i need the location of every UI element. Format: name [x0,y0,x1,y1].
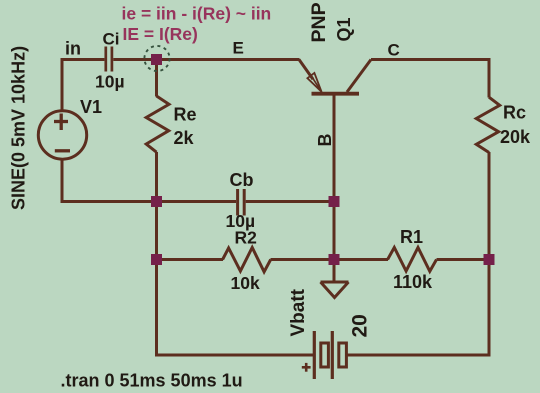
junction node base/Cb [329,196,340,207]
wire Ci right to node E junction [113,58,299,61]
wire left vertical V1 top [61,58,64,112]
resistor Rc [476,97,499,152]
svg-text:Q1: Q1 [334,17,354,41]
wire Cb right to base node [246,200,334,203]
wire in-node top-left horizontal to Ci [61,58,105,61]
junction node R2 row left [151,254,162,265]
svg-text:20: 20 [349,314,372,337]
svg-text:10µ: 10µ [95,72,125,92]
svg-text:Ci: Ci [103,30,120,49]
svg-text:IE = I(Re): IE = I(Re) [123,24,198,44]
junction node base/R2/ground [329,254,340,265]
svg-text:20k: 20k [500,127,531,147]
emitter arrow (PNP, points to base bar) [311,75,322,92]
wire right rail lower [488,152,491,357]
wire collector horizontal C [371,58,491,61]
svg-text:.tran 0 51ms 50ms 1u: .tran 0 51ms 50ms 1u [61,371,243,391]
wire R1 right to right rail [437,258,491,261]
battery plus mark [302,366,311,369]
voltage source V1 [38,111,86,159]
ground symbol [321,282,349,298]
resistor R2 [223,248,271,272]
wire V1 bottom vertical [61,159,64,204]
wire bottom node row to Cb left [61,200,237,203]
svg-text:SINE(0 5mV 10kHz): SINE(0 5mV 10kHz) [9,46,29,210]
wire right rail upper [488,58,491,98]
junction node in/E [151,54,162,65]
collector diagonal [347,60,371,93]
resistor Re [146,96,169,152]
svg-text:110k: 110k [393,272,433,292]
wire R2 right to base junction [271,258,335,261]
junction node R1/right rail [484,254,495,265]
transistor Q1 (PNP) [299,60,371,94]
resistor R1 [388,248,437,272]
wire R1 row left [334,258,388,261]
svg-text:V1: V1 [80,97,102,117]
junction node V1-/Cb row left [151,196,162,207]
wire Re bottom down left rail [155,152,158,357]
svg-text:PNP: PNP [308,2,330,42]
svg-text:ie = iin - i(Re) ~ iin: ie = iin - i(Re) ~ iin [122,4,272,24]
svg-text:C: C [388,41,400,60]
svg-text:in: in [65,39,81,59]
battery Vbatt [302,331,347,379]
svg-text:10k: 10k [231,273,260,293]
wire bottom rail right of battery [347,354,491,357]
wire E junction down to Re top [155,60,158,97]
base bar [312,92,360,96]
svg-text:Cb: Cb [230,170,254,190]
dashed marker circle at node E [144,46,169,71]
svg-text:R2: R2 [235,228,258,248]
capacitor Ci [106,47,112,72]
wire base vertical B [333,95,336,282]
svg-text:R1: R1 [400,227,423,247]
svg-text:Rc: Rc [503,103,526,123]
svg-text:B: B [315,134,335,147]
svg-text:E: E [233,39,244,58]
svg-text:Vbatt: Vbatt [288,288,309,336]
emitter diagonal [299,60,313,80]
svg-text:2k: 2k [174,128,195,148]
capacitor Cb [238,189,245,216]
wire bottom rail left of battery [155,354,313,357]
svg-text:Re: Re [174,105,197,125]
wire R2 row left [157,258,224,261]
